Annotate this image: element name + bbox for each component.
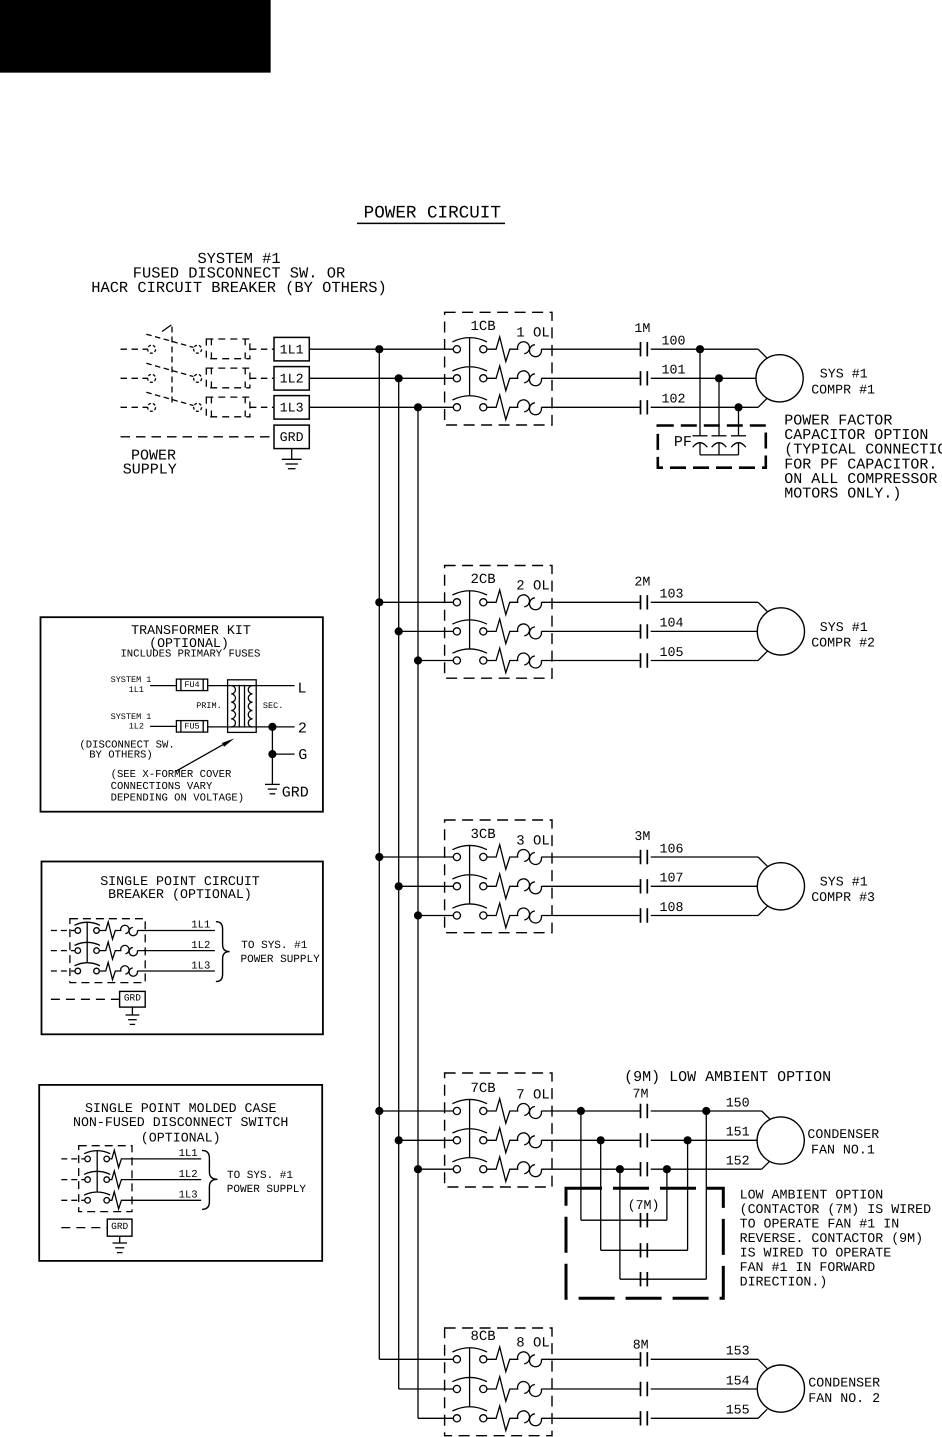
wire 7CB row3 feed xyxy=(418,1168,453,1170)
single point breaker block enclosure xyxy=(70,919,145,983)
ground wire (breaker box) xyxy=(51,998,120,1000)
wire 7CB row1 feed xyxy=(379,1110,453,1112)
molded case switch pole 3 xyxy=(61,1192,201,1209)
contactor 3M contact pole 2 xyxy=(641,879,648,893)
svg-text:1CB: 1CB xyxy=(471,319,496,335)
junction PF L1 xyxy=(696,345,704,353)
wire 9M rise T1 xyxy=(705,1111,707,1279)
contactor 1M contact pole 2 xyxy=(641,371,648,385)
terminal box 1L2 xyxy=(274,367,309,391)
wire 2CB row3 feed xyxy=(418,660,453,662)
breaker pole 7CB-1 with overload xyxy=(452,1099,640,1124)
junction bus2 7CB xyxy=(395,1136,403,1144)
circuit breaker 1CB enclosure xyxy=(445,312,552,425)
wire FU5 to transformer xyxy=(208,726,232,728)
circuit breaker 7CB enclosure xyxy=(445,1073,552,1187)
ground symbol (molded case box) xyxy=(113,1236,128,1252)
wire 150 xyxy=(651,1111,771,1120)
svg-text:FAN NO. 2: FAN NO. 2 xyxy=(808,1391,880,1406)
wire 2 to G xyxy=(271,727,273,754)
terminal box 1L3 xyxy=(274,396,309,420)
label SYS #1 COMPR #3 xyxy=(811,875,875,906)
svg-text:FU4: FU4 xyxy=(184,680,199,690)
wire 9M rise T2 xyxy=(687,1140,689,1250)
svg-text:103: 103 xyxy=(660,587,684,602)
label SYSTEM 1 1L1 xyxy=(111,675,152,695)
svg-text:SUPPLY: SUPPLY xyxy=(123,461,177,478)
svg-text:154: 154 xyxy=(726,1373,750,1388)
wire G to ground xyxy=(271,754,273,784)
svg-text:COMPR #3: COMPR #3 xyxy=(811,890,875,905)
svg-text:NON-FUSED DISCONNECT SWITCH: NON-FUSED DISCONNECT SWITCH xyxy=(73,1115,288,1130)
svg-text:GRD: GRD xyxy=(111,1221,128,1232)
breaker pole 8CB-2 with overload xyxy=(452,1377,640,1402)
breaker pole 2CB-2 with overload xyxy=(452,619,640,644)
wire 105 xyxy=(651,651,768,660)
svg-text:PRIM.: PRIM. xyxy=(196,701,222,711)
junction bus2 1CB xyxy=(395,374,403,382)
svg-text:TO OPERATE FAN #1 IN: TO OPERATE FAN #1 IN xyxy=(740,1217,900,1232)
brace (molded case box) xyxy=(202,1150,218,1209)
svg-text:REVERSE. CONTACTOR (9M): REVERSE. CONTACTOR (9M) xyxy=(740,1231,924,1246)
contactor 2M contact pole 3 xyxy=(641,653,648,667)
svg-text:L: L xyxy=(298,680,307,697)
svg-text:1L1: 1L1 xyxy=(280,342,304,357)
svg-text:DEPENDING ON VOLTAGE): DEPENDING ON VOLTAGE) xyxy=(111,793,245,805)
breaker pole 1CB-2 with overload xyxy=(452,366,640,391)
note TO SYS #1 POWER SUPPLY (breaker box) xyxy=(241,940,321,966)
breaker pole 3CB-1 with overload xyxy=(452,845,640,870)
breaker pole 1CB-3 with overload xyxy=(452,395,640,420)
wire 9M drop L1 xyxy=(580,1111,582,1220)
breaker 1CB trip tie bar xyxy=(469,338,471,396)
junction 7M out T3 xyxy=(663,1165,671,1173)
svg-text:FAN #1 IN FORWARD: FAN #1 IN FORWARD xyxy=(740,1260,876,1275)
transformer T1 xyxy=(228,680,257,733)
labels 1L1 1L2 1L3 (molded case box) xyxy=(179,1148,198,1202)
svg-text:LOW AMBIENT OPTION: LOW AMBIENT OPTION xyxy=(740,1188,884,1203)
wire secondary 2 xyxy=(253,726,295,728)
motor SYS #1 COMPR #1 xyxy=(756,355,803,402)
junction 7M in L1 xyxy=(577,1107,585,1115)
svg-text:1 OL: 1 OL xyxy=(516,326,550,342)
svg-text:TO SYS. #1: TO SYS. #1 xyxy=(241,940,307,952)
svg-text:MOTORS ONLY.): MOTORS ONLY.) xyxy=(784,486,901,503)
svg-text:POWER CIRCUIT: POWER CIRCUIT xyxy=(364,204,501,224)
junction bus3 2CB xyxy=(414,656,422,664)
svg-text:1L2: 1L2 xyxy=(191,940,210,952)
molded case switch pole 1 xyxy=(61,1150,201,1167)
low ambient option enclosure xyxy=(566,1188,723,1298)
wire 103 xyxy=(651,602,768,611)
contactor 2M contact pole 1 xyxy=(641,595,648,609)
breaker 2CB trip tie bar xyxy=(469,591,471,649)
wire 101 xyxy=(651,377,756,379)
contactor 7M contact pole 1 xyxy=(641,1104,648,1118)
disconnect switch pole 2 with fuse (by others) xyxy=(121,363,275,388)
wire 1CB row2 feed xyxy=(309,377,453,379)
svg-text:CONNECTIONS VARY: CONNECTIONS VARY xyxy=(111,781,213,793)
wire secondary L xyxy=(253,685,295,687)
single point molded case enclosure xyxy=(39,1085,322,1261)
svg-text:1L3: 1L3 xyxy=(280,400,304,415)
wire 1CB row1 feed xyxy=(309,348,453,350)
single point breaker tie bar xyxy=(86,922,88,963)
contactor 8M contact pole 2 xyxy=(641,1382,648,1396)
ground symbol (power supply) xyxy=(282,449,302,469)
terminal box GRD (breaker box) xyxy=(120,991,146,1007)
svg-text:1L3: 1L3 xyxy=(179,1190,198,1202)
svg-text:1L1: 1L1 xyxy=(191,920,210,932)
wire 9M drop L3 xyxy=(619,1169,621,1279)
single point breaker pole 1 xyxy=(51,922,215,939)
wire to FU4 xyxy=(150,685,176,687)
wire 9M drop L2 xyxy=(600,1140,602,1250)
molded case switch tie bar xyxy=(96,1151,98,1192)
svg-text:GRD: GRD xyxy=(280,430,304,445)
wire 152 xyxy=(651,1161,770,1169)
contactor 1M contact pole 3 xyxy=(641,400,648,414)
junction bus1 2CB xyxy=(375,598,383,606)
wire 7CB row2 feed xyxy=(399,1139,454,1141)
junction bus2 3CB xyxy=(395,882,403,890)
svg-text:CONDENSER: CONDENSER xyxy=(807,1127,879,1142)
svg-text:(9M) LOW AMBIENT OPTION: (9M) LOW AMBIENT OPTION xyxy=(624,1069,831,1086)
wire 151 xyxy=(651,1139,757,1141)
breaker pole 3CB-2 with overload xyxy=(452,874,640,899)
wire 3CB row3 feed xyxy=(418,915,453,917)
svg-text:1L2: 1L2 xyxy=(129,722,144,732)
title block (black) xyxy=(0,0,270,72)
breaker pole 7CB-3 with overload xyxy=(452,1157,640,1182)
svg-text:BREAKER (OPTIONAL): BREAKER (OPTIONAL) xyxy=(108,887,252,902)
label SYSTEM 1 1L2 xyxy=(111,712,152,731)
svg-text:106: 106 xyxy=(660,841,684,856)
ground wire GRD (dashed) xyxy=(121,436,275,438)
disconnect switch linkage xyxy=(162,325,172,403)
wire 108 xyxy=(651,906,768,915)
wire 154 xyxy=(651,1388,758,1390)
svg-text:GRD: GRD xyxy=(124,993,141,1004)
svg-text:PF: PF xyxy=(674,434,692,451)
contactor 8M contact pole 3 xyxy=(641,1411,648,1425)
disconnect switch pole 3 with fuse (by others) xyxy=(121,392,275,417)
motor CONDENSER FAN NO.1 xyxy=(757,1117,804,1164)
svg-text:150: 150 xyxy=(726,1095,750,1110)
wire 153 xyxy=(651,1359,767,1368)
svg-text:COMPR #2: COMPR #2 xyxy=(811,635,875,650)
svg-text:108: 108 xyxy=(660,900,684,915)
circuit breaker 3CB enclosure xyxy=(445,820,552,933)
fuse FU5 xyxy=(176,721,207,733)
svg-text:HACR CIRCUIT BREAKER (BY OTHER: HACR CIRCUIT BREAKER (BY OTHERS) xyxy=(91,279,387,297)
svg-text:1L2: 1L2 xyxy=(280,371,304,386)
svg-text:2CB: 2CB xyxy=(471,572,496,588)
junction bus1 1CB xyxy=(375,345,383,353)
label CONDENSER FAN NO. 2 xyxy=(808,1375,880,1406)
brace (breaker box) xyxy=(216,922,230,982)
contactor 1M contact pole 1 xyxy=(641,342,648,356)
svg-text:TO SYS. #1: TO SYS. #1 xyxy=(227,1170,293,1182)
wire 107 xyxy=(651,885,758,887)
wire 155 xyxy=(651,1409,768,1418)
svg-text:COMPR #1: COMPR #1 xyxy=(811,382,875,397)
svg-text:102: 102 xyxy=(662,392,686,407)
breaker 3CB trip tie bar xyxy=(469,845,471,904)
molded case switch pole 2 xyxy=(61,1171,201,1188)
note disconnect sw by others xyxy=(79,739,174,761)
label POWER SUPPLY xyxy=(123,447,177,478)
motor SYS #1 COMPR #2 xyxy=(757,608,804,655)
junction bus3 7CB xyxy=(414,1165,422,1173)
bus L3 (vertical) xyxy=(417,407,419,1418)
motor SYS #1 COMPR #3 xyxy=(757,863,804,910)
breaker pole 2CB-3 with overload xyxy=(452,648,640,673)
svg-text:SYSTEM 1: SYSTEM 1 xyxy=(111,675,152,685)
note TO SYS #1 POWER SUPPLY (molded case box) xyxy=(227,1170,307,1196)
junction bus1 7CB xyxy=(375,1107,383,1115)
breaker pole 3CB-3 with overload xyxy=(452,903,640,928)
svg-text:DIRECTION.): DIRECTION.) xyxy=(740,1274,828,1289)
ground symbol (breaker box) xyxy=(126,1007,140,1024)
wire 9M rise T3 xyxy=(666,1169,668,1220)
svg-text:107: 107 xyxy=(660,871,684,886)
svg-text:7M: 7M xyxy=(633,1086,649,1101)
contactor (9M) contact pole 2 xyxy=(641,1243,648,1257)
title POWER CIRCUIT xyxy=(357,204,505,224)
junction PF L2 xyxy=(715,374,723,382)
wire 3CB row1 feed xyxy=(379,856,453,858)
svg-text:(CONTACTOR (7M) IS WIRED: (CONTACTOR (7M) IS WIRED xyxy=(740,1202,932,1217)
breaker pole 8CB-1 with overload xyxy=(452,1347,640,1372)
wire to FU5 xyxy=(150,725,176,727)
wire 2CB row1 feed xyxy=(379,601,453,603)
junction 7M out T1 xyxy=(702,1107,710,1115)
svg-text:POWER SUPPLY: POWER SUPPLY xyxy=(227,1184,307,1196)
svg-text:SEC.: SEC. xyxy=(263,701,283,711)
svg-text:SINGLE POINT MOLDED CASE: SINGLE POINT MOLDED CASE xyxy=(85,1101,277,1116)
svg-text:105: 105 xyxy=(660,645,684,660)
svg-text:FU5: FU5 xyxy=(184,722,199,732)
labels 1L1 1L2 1L3 (breaker box) xyxy=(191,920,210,973)
svg-text:155: 155 xyxy=(726,1403,750,1418)
svg-text:FAN NO.1: FAN NO.1 xyxy=(811,1143,875,1158)
breaker pole 7CB-2 with overload xyxy=(452,1128,640,1153)
molded case switch enclosure xyxy=(79,1146,132,1212)
wire bus L1 elbow to 8CB xyxy=(379,1358,453,1360)
svg-text:3M: 3M xyxy=(634,829,650,844)
svg-text:INCLUDES PRIMARY FUSES: INCLUDES PRIMARY FUSES xyxy=(120,648,260,660)
svg-text:104: 104 xyxy=(660,616,684,631)
svg-text:3 OL: 3 OL xyxy=(516,833,550,849)
junction 7M in L3 xyxy=(616,1165,624,1173)
single point breaker pole 3 xyxy=(51,962,215,979)
svg-text:CONDENSER: CONDENSER xyxy=(808,1375,880,1390)
svg-text:(7M): (7M) xyxy=(628,1198,660,1213)
svg-text:2 OL: 2 OL xyxy=(516,579,550,595)
contactor 3M contact pole 3 xyxy=(641,908,648,922)
svg-text:IS WIRED TO OPERATE: IS WIRED TO OPERATE xyxy=(740,1245,892,1260)
terminal box GRD xyxy=(274,425,309,449)
junction 7M in L2 xyxy=(597,1136,605,1144)
single point breaker pole 2 xyxy=(51,942,215,959)
circuit breaker 2CB enclosure xyxy=(445,566,552,679)
note power factor capacitor option xyxy=(784,413,942,503)
PF capacitor option enclosure xyxy=(658,426,766,468)
svg-text:BY OTHERS): BY OTHERS) xyxy=(89,749,153,761)
header note SYSTEM #1 FUSED DISCONNECT xyxy=(91,250,387,297)
motor CONDENSER FAN NO. 2 xyxy=(757,1365,804,1412)
label SYS #1 COMPR #1 xyxy=(811,367,875,398)
wire 1CB row3 feed xyxy=(309,406,453,408)
label SINGLE POINT CIRCUIT BREAKER xyxy=(100,874,260,902)
breaker pole 8CB-3 with overload xyxy=(452,1406,640,1431)
wire 3CB row2 feed xyxy=(399,885,454,887)
contactor 7M contact pole 2 xyxy=(641,1133,648,1147)
svg-text:GRD: GRD xyxy=(282,784,309,801)
svg-text:8 OL: 8 OL xyxy=(516,1336,550,1352)
svg-text:1L1: 1L1 xyxy=(179,1148,198,1160)
capacitors PF (3x) xyxy=(693,349,747,455)
wire bus L2 elbow to 8CB xyxy=(399,1388,454,1390)
wire bus L3 elbow to 8CB xyxy=(418,1417,453,1419)
wire 102 xyxy=(651,398,768,407)
breaker pole 1CB-1 with overload xyxy=(452,337,640,362)
terminal box GRD (molded case box) xyxy=(107,1219,132,1236)
circuit breaker 8CB enclosure xyxy=(445,1328,552,1436)
svg-text:POWER SUPPLY: POWER SUPPLY xyxy=(241,954,321,966)
contactor (9M) contact pole 1 xyxy=(641,1213,648,1227)
svg-text:1M: 1M xyxy=(634,321,650,336)
svg-text:2M: 2M xyxy=(634,574,650,589)
label SINGLE POINT MOLDED CASE xyxy=(73,1101,288,1146)
wire 9M pole3 row xyxy=(620,1278,706,1280)
wire 104 xyxy=(651,630,758,632)
note low ambient option xyxy=(740,1188,932,1290)
terminal box 1L1 xyxy=(274,337,309,361)
svg-text:151: 151 xyxy=(726,1125,750,1140)
svg-text:7 OL: 7 OL xyxy=(516,1087,550,1103)
svg-text:8M: 8M xyxy=(633,1337,649,1352)
ground wire (molded case box) xyxy=(61,1227,107,1229)
arrow to transformer xyxy=(176,738,234,771)
label TRANSFORMER KIT xyxy=(120,623,260,660)
svg-text:SYS #1: SYS #1 xyxy=(820,875,868,890)
junction secondary 2 xyxy=(268,723,276,731)
wire FU4 to transformer xyxy=(208,685,232,687)
contactor 3M contact pole 1 xyxy=(641,850,648,864)
svg-text:1L3: 1L3 xyxy=(191,960,210,972)
breaker 7CB trip tie bar xyxy=(469,1099,471,1157)
junction bus2 2CB xyxy=(395,627,403,635)
svg-text:3CB: 3CB xyxy=(471,827,496,843)
svg-text:2: 2 xyxy=(298,720,307,737)
breaker 8CB trip tie bar xyxy=(469,1348,471,1407)
wire 106 xyxy=(651,857,768,866)
label SYS #1 COMPR #2 xyxy=(811,620,875,651)
svg-text:(OPTIONAL): (OPTIONAL) xyxy=(141,1131,221,1146)
svg-text:G: G xyxy=(298,747,307,764)
svg-text:1L2: 1L2 xyxy=(179,1169,198,1181)
wire 2CB row2 feed xyxy=(399,630,454,632)
svg-text:SYS #1: SYS #1 xyxy=(820,367,868,382)
contactor 2M contact pole 2 xyxy=(641,624,648,638)
junction bus1 3CB xyxy=(375,853,383,861)
junction PF L3 xyxy=(734,403,742,411)
wire 9M pole2 row xyxy=(601,1249,688,1251)
junction bus3 3CB xyxy=(414,911,422,919)
single point circuit breaker enclosure xyxy=(42,862,323,1035)
svg-text:7CB: 7CB xyxy=(471,1081,496,1097)
svg-text:1L1: 1L1 xyxy=(129,685,144,695)
svg-text:153: 153 xyxy=(726,1344,750,1359)
wire 9M pole1 row xyxy=(581,1219,667,1221)
ground symbol (transformer) xyxy=(265,784,280,793)
junction bus3 1CB xyxy=(414,403,422,411)
svg-text:100: 100 xyxy=(662,334,686,349)
svg-text:(SEE X-FORMER COVER: (SEE X-FORMER COVER xyxy=(111,769,232,781)
svg-text:152: 152 xyxy=(726,1154,750,1169)
transformer kit enclosure xyxy=(41,617,323,812)
contactor 7M contact pole 3 xyxy=(641,1162,648,1176)
svg-text:101: 101 xyxy=(662,363,686,378)
svg-text:8CB: 8CB xyxy=(471,1329,496,1345)
fuse FU4 xyxy=(176,679,207,691)
bus L1 (vertical) xyxy=(378,349,380,1359)
disconnect switch pole 1 with fuse (by others) xyxy=(121,334,275,359)
label CONDENSER FAN NO.1 xyxy=(807,1127,879,1158)
svg-text:SYS #1: SYS #1 xyxy=(820,620,868,635)
contactor 8M contact pole 1 xyxy=(641,1352,648,1366)
note see x-former cover xyxy=(111,769,245,805)
wire 100 xyxy=(651,349,768,358)
junction G xyxy=(268,750,276,758)
bus L2 (vertical) xyxy=(398,378,400,1389)
wire G stub xyxy=(272,753,294,755)
breaker pole 2CB-1 with overload xyxy=(452,590,640,615)
contactor (9M) contact pole 3 xyxy=(641,1272,648,1286)
junction 7M out T2 xyxy=(684,1136,692,1144)
